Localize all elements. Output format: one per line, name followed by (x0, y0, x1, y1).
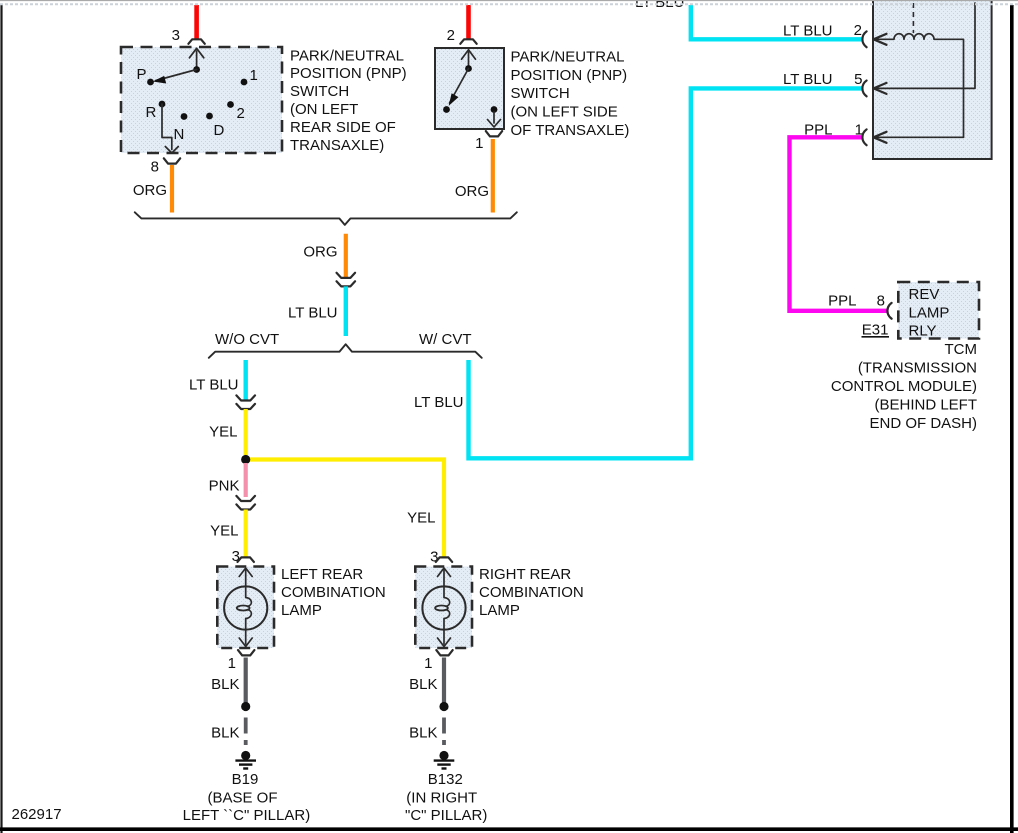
S1 description text (290, 47, 407, 154)
TCM pin 5 internal wire (874, 3, 975, 88)
svg-text:3: 3 (232, 548, 240, 565)
svg-text:N: N (174, 126, 185, 143)
L2 bulb circle (422, 586, 465, 629)
ground G1 label B19 (183, 771, 311, 824)
L2 filament (435, 586, 450, 629)
svg-text:LT BLU: LT BLU (414, 394, 463, 411)
connector at right lamp pin 3 (436, 557, 452, 562)
svg-text:POSITION (PNP): POSITION (PNP) (511, 67, 628, 84)
splice PNK to YEL (236, 496, 255, 510)
connector at S2 pin 2 (460, 39, 476, 44)
svg-text:1: 1 (250, 67, 258, 84)
connector at TCM pin 2 (862, 31, 866, 47)
splice node right (439, 702, 448, 711)
PNP switch S1 (dashed box) (121, 47, 282, 153)
wire YEL upper (244, 409, 248, 455)
top edge strip (0, 1, 1018, 5)
svg-text:(IN RIGHT: (IN RIGHT (406, 790, 477, 807)
svg-text:END OF DASH): END OF DASH) (869, 415, 977, 432)
TCM pin 2 arrow (874, 34, 887, 45)
L1 bulb circle (224, 586, 267, 629)
svg-text:2: 2 (447, 27, 455, 44)
wire ORG from S2 pin 1 (491, 139, 495, 213)
svg-text:2: 2 (854, 22, 862, 39)
wire YEL to left lamp (244, 510, 248, 558)
S1 pivot node (193, 66, 200, 73)
wire ORG from S1 pin 8 (170, 165, 174, 213)
svg-text:TRANSAXLE): TRANSAXLE) (290, 137, 384, 154)
svg-text:P: P (137, 66, 147, 83)
svg-text:(BEHIND LEFT: (BEHIND LEFT (874, 397, 977, 414)
S1 contact R (159, 101, 166, 108)
svg-text:SWITCH: SWITCH (511, 85, 570, 102)
L2 arrow to pin 1 (438, 630, 451, 647)
svg-text:(BASE OF: (BASE OF (207, 790, 277, 807)
svg-text:PARK/NEUTRAL: PARK/NEUTRAL (290, 47, 404, 64)
PNP switch S2 (solid box) (435, 48, 504, 129)
svg-text:LAMP: LAMP (281, 602, 322, 619)
rev lamp relay (dashed box) (898, 282, 979, 339)
svg-text:BLK: BLK (211, 676, 239, 693)
wire BLK from left lamp (244, 658, 248, 704)
splice ORG to LT BLU (337, 273, 356, 287)
wire red to PNP switch S1 pin 3 (194, 5, 199, 39)
merge brace (135, 212, 517, 225)
svg-text:RIGHT REAR: RIGHT REAR (479, 566, 571, 583)
splice node left (241, 702, 250, 711)
S1 contact P (147, 79, 154, 86)
svg-text:LAMP: LAMP (909, 304, 950, 321)
wire LT BLU left branch (243, 360, 247, 400)
right rear combination lamp L2 (dashed box) (415, 567, 472, 649)
L2 arrow to pin 3 (438, 568, 451, 587)
svg-text:TCM: TCM (945, 341, 978, 358)
connector at S1 pin 8 (164, 158, 180, 163)
svg-text:(ON LEFT: (ON LEFT (290, 101, 358, 118)
junction node (241, 455, 250, 464)
svg-text:REAR SIDE OF: REAR SIDE OF (290, 119, 396, 136)
connector at TCM pin 1 (862, 129, 866, 145)
svg-text:5: 5 (854, 71, 862, 88)
svg-text:YEL: YEL (407, 510, 435, 527)
S1 contact D (206, 113, 213, 120)
svg-text:(ON LEFT SIDE: (ON LEFT SIDE (511, 104, 618, 121)
connector at TCM pin 5 (862, 81, 866, 97)
svg-text:D: D (214, 122, 225, 139)
svg-text:ORG: ORG (133, 182, 167, 199)
ground G1 (235, 751, 256, 769)
TCM description (831, 341, 977, 432)
left rear combination lamp L1 (dashed box) (217, 567, 274, 649)
svg-text:LT BLU: LT BLU (635, 0, 684, 11)
TCM connector box (873, 0, 992, 159)
svg-text:R: R (146, 104, 157, 121)
svg-text:2: 2 (237, 105, 245, 122)
L2 description (479, 566, 584, 619)
svg-text:BLK: BLK (409, 725, 437, 742)
S2 switch arm (449, 69, 469, 106)
svg-text:REV: REV (909, 286, 940, 303)
svg-text:PARK/NEUTRAL: PARK/NEUTRAL (511, 49, 625, 66)
svg-text:ORG: ORG (303, 244, 337, 261)
connector at S1 pin 3 (188, 39, 204, 44)
svg-text:262917: 262917 (12, 806, 62, 823)
svg-text:B19: B19 (232, 771, 259, 788)
svg-text:ORG: ORG (455, 183, 489, 200)
svg-text:POSITION (PNP): POSITION (PNP) (290, 65, 407, 82)
svg-text:COMBINATION: COMBINATION (479, 584, 584, 601)
svg-text:LEFT REAR: LEFT REAR (281, 566, 363, 583)
svg-text:8: 8 (877, 293, 885, 310)
S1 contact 2 (227, 101, 234, 108)
svg-text:PNK: PNK (209, 478, 240, 495)
svg-text:LT BLU: LT BLU (189, 377, 238, 394)
S2 arrow to pin 2 (462, 50, 476, 65)
S1 contact N (181, 113, 188, 120)
svg-text:LEFT ``C" PILLAR): LEFT ``C" PILLAR) (183, 807, 311, 824)
svg-text:YEL: YEL (209, 424, 237, 441)
connector at relay pin 8 (887, 303, 891, 319)
wire PNK (244, 463, 248, 497)
svg-text:LT BLU: LT BLU (783, 71, 832, 88)
wire BLK dashed left (244, 718, 248, 749)
S2 contact output (491, 106, 498, 113)
svg-text:W/O CVT: W/O CVT (215, 331, 279, 348)
connector id E31 (862, 322, 890, 339)
wire LT BLU cut at top to TCM pin 2 (691, 5, 862, 39)
svg-text:BLK: BLK (409, 676, 437, 693)
svg-text:LT BLU: LT BLU (288, 305, 337, 322)
wire PPL from TCM pin 1 to relay (790, 137, 887, 310)
svg-text:LT BLU: LT BLU (783, 23, 832, 40)
S1 arrow to pin 3 (189, 48, 203, 66)
svg-text:BLK: BLK (211, 725, 239, 742)
S2 arrow to pin 1 (488, 112, 501, 127)
svg-text:OF TRANSAXLE): OF TRANSAXLE) (511, 122, 630, 139)
frame right (1010, 5, 1014, 833)
L1 filament (237, 586, 252, 629)
svg-text:CONTROL MODULE): CONTROL MODULE) (831, 378, 977, 395)
connector at right lamp pin 1 (436, 650, 452, 655)
svg-text:E31: E31 (862, 322, 889, 339)
S2 pivot node (465, 65, 472, 72)
L1 arrow to pin 3 (239, 568, 252, 587)
svg-text:YEL: YEL (210, 523, 238, 540)
wire YEL horizontal to right lamp (246, 460, 444, 558)
S1 wire R to pin 8 (162, 104, 178, 153)
svg-text:RLY: RLY (909, 323, 937, 340)
L1 arrow to pin 1 (239, 630, 252, 647)
frame left (0, 5, 2, 833)
ground G2 label B132 (405, 771, 487, 824)
S2 description text (511, 49, 630, 139)
wire BLK dashed right (442, 718, 446, 749)
S2 contact lower-left (443, 106, 450, 113)
connector at left lamp pin 3 (238, 557, 254, 562)
TCM dashed stub (912, 3, 914, 33)
ground G2 (434, 751, 455, 769)
svg-text:1: 1 (228, 655, 236, 672)
connector at left lamp pin 1 (238, 650, 254, 655)
connector at S2 pin 1 (486, 131, 502, 136)
TCM pin 5 arrow (874, 83, 887, 94)
wire BLK from right lamp (442, 658, 446, 704)
svg-text:1: 1 (424, 655, 432, 672)
S1 switch arm to P (153, 70, 197, 84)
svg-text:"C" PILLAR): "C" PILLAR) (405, 807, 487, 824)
svg-text:3: 3 (172, 27, 180, 44)
wire LT BLU W/CVT branch (469, 88, 862, 458)
svg-text:8: 8 (151, 159, 159, 176)
TCM pin 1 arrow (874, 132, 887, 143)
wire LT BLU merged (344, 286, 348, 336)
splice LT BLU to YEL (236, 395, 255, 409)
TCM pin 1 internal wire (874, 136, 964, 138)
svg-text:LAMP: LAMP (479, 602, 520, 619)
L1 description (281, 566, 386, 619)
svg-text:COMBINATION: COMBINATION (281, 584, 386, 601)
svg-text:1: 1 (475, 135, 483, 152)
svg-text:PPL: PPL (828, 293, 856, 310)
relay coil inside TCM (874, 34, 964, 138)
svg-text:W/ CVT: W/ CVT (419, 331, 472, 348)
wire red to PNP switch S2 pin 2 (466, 5, 471, 39)
frame bottom (0, 827, 1018, 831)
wire ORG merged (344, 234, 348, 277)
split brace W/O CVT vs W/ CVT (209, 344, 482, 358)
svg-text:3: 3 (430, 549, 438, 566)
S1 contact 1 (241, 79, 248, 86)
svg-text:(TRANSMISSION: (TRANSMISSION (858, 360, 977, 377)
svg-text:SWITCH: SWITCH (290, 83, 349, 100)
relay text (909, 286, 950, 340)
svg-text:B132: B132 (428, 771, 463, 788)
